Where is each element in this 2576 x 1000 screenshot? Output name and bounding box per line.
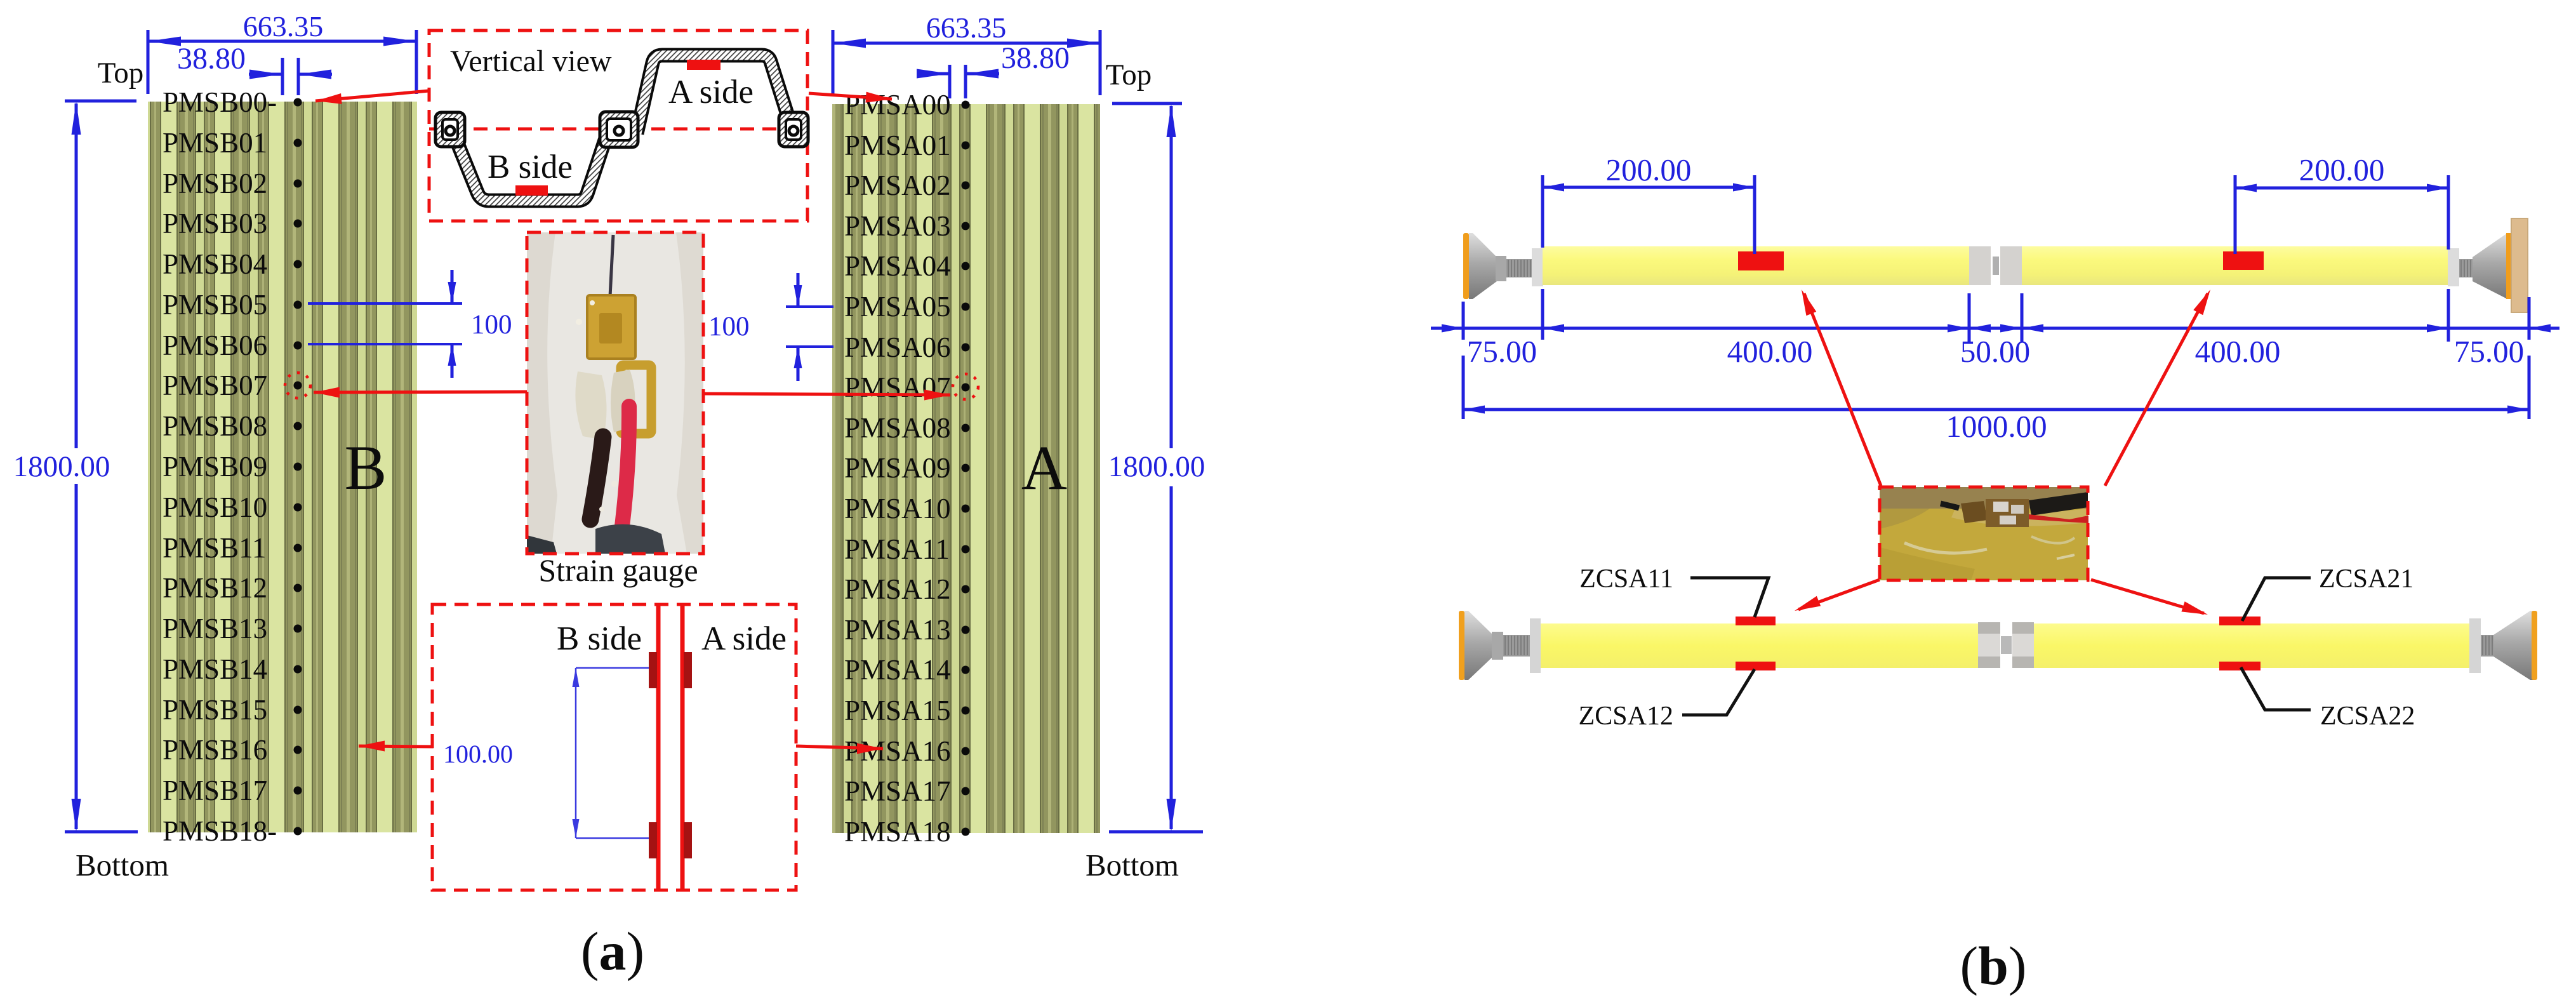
labels PMSB00-PMSB18 bbox=[163, 86, 277, 847]
middle interlock knuckle bbox=[600, 112, 638, 147]
bottom tie rod: middle coupler bbox=[1978, 622, 2034, 668]
svg-text:38.80: 38.80 bbox=[1001, 41, 1070, 75]
svg-text:PMSA01: PMSA01 bbox=[844, 130, 951, 161]
vertical view inset box bbox=[429, 30, 807, 221]
dimension 663.35 over panel B bbox=[148, 10, 416, 94]
black leader ZCSA12 bbox=[1682, 669, 1755, 715]
svg-text:PMSB06: PMSB06 bbox=[163, 330, 267, 361]
red arrow from bottom inset to panel A bbox=[796, 746, 883, 749]
svg-text:PMSA13: PMSA13 bbox=[844, 614, 951, 646]
svg-text:Top: Top bbox=[1106, 58, 1152, 91]
svg-text:PMSB14: PMSB14 bbox=[163, 653, 267, 685]
strain gauge photo inset bbox=[527, 232, 703, 554]
svg-text:663.35: 663.35 bbox=[926, 11, 1007, 44]
bottom tie rod: right yellow segment bbox=[2034, 623, 2469, 668]
svg-text:A side: A side bbox=[668, 74, 754, 110]
svg-text:A: A bbox=[1021, 432, 1067, 503]
svg-text:100: 100 bbox=[708, 312, 750, 342]
svg-text:PMSA12: PMSA12 bbox=[844, 573, 951, 605]
svg-text:PMSB00-: PMSB00- bbox=[163, 86, 277, 118]
red strain gauge mark on B-side flange bbox=[515, 185, 548, 196]
svg-text:PMSA07: PMSA07 bbox=[844, 371, 951, 403]
svg-text:PMSA05: PMSA05 bbox=[844, 291, 951, 323]
svg-text:PMSA06: PMSA06 bbox=[844, 331, 951, 363]
bottom tie rod: left end cap bbox=[1459, 611, 1541, 680]
svg-text:PMSA10: PMSA10 bbox=[844, 493, 951, 524]
svg-text:ZCSA22: ZCSA22 bbox=[2320, 702, 2415, 731]
svg-text:PMSB03: PMSB03 bbox=[163, 208, 267, 239]
svg-text:Top: Top bbox=[98, 57, 143, 90]
dimension 38.80 over panel B bbox=[177, 42, 332, 95]
svg-text:PMSA03: PMSA03 bbox=[844, 210, 951, 242]
svg-text:1800.00: 1800.00 bbox=[1108, 450, 1205, 483]
svg-text:A side: A side bbox=[701, 620, 787, 657]
svg-text:38.80: 38.80 bbox=[177, 42, 246, 76]
svg-text:PMSB10: PMSB10 bbox=[163, 491, 267, 523]
svg-text:75.00: 75.00 bbox=[1467, 334, 1537, 369]
svg-text:PMSB08: PMSB08 bbox=[163, 410, 267, 442]
top tie rod: left yellow segment bbox=[1543, 246, 1969, 285]
svg-text:Strain gauge: Strain gauge bbox=[538, 552, 698, 588]
red arrow from bottom inset to panel B bbox=[359, 746, 434, 747]
svg-text:PMSB17: PMSB17 bbox=[163, 775, 267, 806]
red leader line from strain-gauge inset to PMSB07 bbox=[314, 392, 527, 392]
black leader ZCSA22 bbox=[2241, 667, 2311, 710]
measurement dots PMSA00-PMSA18 on panel A bbox=[962, 101, 970, 836]
top tie rod: left end cap bbox=[1463, 233, 1543, 299]
top tie rod: middle coupler bbox=[1969, 246, 2022, 285]
B-side pile edge line (red) bbox=[656, 605, 661, 889]
(b) strain gauge photo inset bbox=[1880, 487, 2088, 580]
svg-text:ZCSA11: ZCSA11 bbox=[1579, 564, 1673, 594]
red leader line from strain-gauge inset to PMSA07 bbox=[703, 394, 950, 395]
svg-text:PMSA04: PMSA04 bbox=[844, 250, 951, 282]
svg-text:PMSB15: PMSB15 bbox=[163, 694, 267, 726]
svg-text:PMSA14: PMSA14 bbox=[844, 654, 951, 686]
svg-text:PMSB01: PMSB01 bbox=[163, 127, 267, 159]
measurement dots PMSB00-PMSB18 on panel B bbox=[294, 98, 302, 836]
dimension 200.00 right (top bar) bbox=[2235, 152, 2448, 254]
svg-text:PMSB09: PMSB09 bbox=[163, 451, 267, 483]
dimension 663.35 over panel A bbox=[833, 11, 1100, 95]
panel B (striped sheet pile wall, side B) bbox=[148, 102, 417, 832]
top tie rod: right yellow segment bbox=[2022, 246, 2448, 285]
sheet pile cross-section B-side trough wall (hatched) bbox=[455, 136, 606, 201]
svg-text:PMSA17: PMSA17 bbox=[844, 775, 951, 807]
svg-text:(a): (a) bbox=[581, 921, 644, 982]
strain gauges on pile edges (dark red) bbox=[649, 652, 692, 858]
svg-text:PMSB13: PMSB13 bbox=[163, 613, 267, 644]
svg-text:PMSA08: PMSA08 bbox=[844, 412, 951, 444]
black leader ZCSA21 bbox=[2242, 578, 2311, 621]
svg-text:PMSB18-: PMSB18- bbox=[163, 815, 277, 847]
red arrow from (b) photo to ZCSA21 gauge bbox=[2091, 580, 2204, 613]
red gauge mark ZCSA12 bbox=[1736, 662, 1776, 670]
svg-text:PMSA15: PMSA15 bbox=[844, 695, 951, 726]
red arrow from vertical-view inset to PMSA00 dot bbox=[809, 93, 892, 99]
svg-text:PMSB11: PMSB11 bbox=[163, 532, 266, 564]
strain gauge photo dashed red frame bbox=[527, 232, 703, 554]
svg-text:400.00: 400.00 bbox=[2195, 334, 2281, 369]
thin blue dimension 100.00 inside bottom inset bbox=[576, 668, 649, 838]
dimension 1800.00 right of panel A bbox=[1108, 103, 1205, 832]
sheet pile cross-section A-side crest wall (hatched) bbox=[637, 55, 790, 133]
svg-text:PMSA09: PMSA09 bbox=[844, 452, 951, 484]
(b) photo inset dashed red frame bbox=[1880, 487, 2088, 580]
svg-text:663.35: 663.35 bbox=[243, 10, 324, 43]
svg-text:75.00: 75.00 bbox=[2454, 334, 2524, 369]
red gauge mark ZCSA11 bbox=[1736, 617, 1776, 625]
red strain gauge on top rod left bbox=[1738, 251, 1784, 270]
red dotted circle around PMSA07 dot bbox=[953, 374, 978, 399]
A-side pile edge line (red) bbox=[681, 605, 685, 889]
svg-text:PMSB16: PMSB16 bbox=[163, 734, 267, 766]
svg-text:100: 100 bbox=[471, 310, 512, 340]
svg-text:PMSA00: PMSA00 bbox=[844, 89, 951, 121]
svg-text:Vertical view: Vertical view bbox=[450, 44, 612, 78]
svg-text:PMSA02: PMSA02 bbox=[844, 170, 951, 201]
top tie rod: right end cap with plate bbox=[2448, 218, 2528, 312]
svg-text:Bottom: Bottom bbox=[76, 848, 169, 883]
svg-text:400.00: 400.00 bbox=[1727, 334, 1813, 369]
red dotted circle around PMSB07 dot bbox=[285, 373, 310, 398]
red strain gauge mark on A-side flange bbox=[687, 60, 720, 70]
panel A (striped sheet pile wall, side A) bbox=[832, 104, 1100, 833]
svg-text:B side: B side bbox=[488, 149, 573, 185]
left interlock knuckle bbox=[435, 112, 465, 147]
red gauge mark ZCSA22 bbox=[2219, 662, 2261, 670]
dimension 100 between PMSA05 and PMSA06 bbox=[708, 273, 833, 381]
svg-text:PMSB07: PMSB07 bbox=[163, 370, 267, 401]
svg-text:200.00: 200.00 bbox=[1606, 152, 1692, 187]
bottom detail inset dashed box bbox=[432, 604, 796, 890]
svg-text:B side: B side bbox=[557, 620, 642, 657]
svg-text:50.00: 50.00 bbox=[1960, 334, 2030, 369]
section dashed line through interlocks bbox=[429, 128, 807, 131]
svg-text:ZCSA12: ZCSA12 bbox=[1579, 702, 1673, 731]
black leader ZCSA11 bbox=[1690, 578, 1769, 617]
red strain gauge on top rod right bbox=[2223, 251, 2264, 270]
svg-text:ZCSA21: ZCSA21 bbox=[2319, 564, 2413, 594]
svg-text:Bottom: Bottom bbox=[1086, 848, 1179, 883]
red arrow from (b) photo inset to right gauge of top bar bbox=[2105, 293, 2208, 486]
svg-text:PMSA18: PMSA18 bbox=[844, 816, 951, 848]
svg-text:200.00: 200.00 bbox=[2299, 152, 2385, 187]
dimension 1800.00 left of panel B bbox=[13, 101, 138, 832]
red gauge mark ZCSA21 bbox=[2219, 617, 2261, 625]
dimension 38.80 over panel A bbox=[917, 41, 1070, 98]
svg-text:100.00: 100.00 bbox=[443, 740, 513, 768]
dimension 1000.00 (top bar overall) bbox=[1463, 356, 2529, 444]
svg-text:1000.00: 1000.00 bbox=[1946, 409, 2047, 444]
right interlock knuckle bbox=[779, 112, 808, 147]
svg-text:PMSB05: PMSB05 bbox=[163, 289, 267, 321]
red arrow from (b) photo inset to left gauge of top bar bbox=[1804, 293, 1881, 486]
dimension 100 between PMSB05 and PMSB06 bbox=[308, 270, 512, 378]
svg-text:B: B bbox=[345, 432, 387, 503]
bottom tie rod: right end cap bbox=[2469, 611, 2537, 680]
svg-text:1800.00: 1800.00 bbox=[13, 450, 110, 483]
svg-text:PMSB04: PMSB04 bbox=[163, 248, 267, 280]
svg-text:PMSA11: PMSA11 bbox=[844, 533, 950, 565]
red arrow from vertical-view inset to PMSB00 dot bbox=[315, 91, 429, 101]
bottom tie rod: left yellow segment bbox=[1541, 623, 1978, 668]
svg-text:PMSB12: PMSB12 bbox=[163, 572, 267, 604]
dimension 200.00 left (top bar) bbox=[1543, 152, 1755, 254]
labels PMSA00-PMSA18 bbox=[844, 89, 951, 848]
red arrow from (b) photo to ZCSA11 gauge bbox=[1798, 580, 1880, 610]
svg-text:(b): (b) bbox=[1960, 935, 2026, 996]
svg-text:PMSB02: PMSB02 bbox=[163, 168, 267, 199]
chain dimension line 75.00 400.00 50.00 400.00 75.00 bbox=[1431, 289, 2559, 369]
